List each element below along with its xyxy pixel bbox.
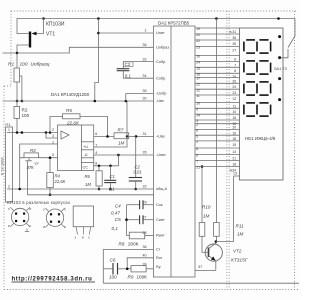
svg-text:R3: R3 — [30, 148, 36, 153]
pinout circle 1 — [11, 208, 28, 225]
display digit 2 — [244, 61, 271, 74]
wire pin4 to DA2 pin26 — [94, 154, 154, 156]
wire DA2 pin 20 to display pin 36 — [195, 33, 240, 35]
resistor R11 — [214, 223, 220, 237]
svg-text:Rу: Rу — [156, 265, 161, 269]
wire DA2 pin 15 to display pin 8 — [195, 66, 240, 68]
resistor R10 — [199, 223, 205, 237]
wire bottom rail — [103, 282, 299, 284]
display decimal point 1 — [278, 35, 281, 38]
svg-text:32: 32 — [143, 185, 147, 189]
junction pin3 branch / input row — [45, 131, 48, 134]
svg-text:5: 5 — [196, 108, 198, 112]
wire C5 row pin27 — [127, 219, 140, 221]
junction R7 / +U branch — [126, 135, 129, 138]
svg-text:34: 34 — [143, 74, 147, 78]
svg-text:+U: +U — [83, 145, 88, 149]
VT2 base lead — [202, 251, 209, 253]
svg-text:Rог: Rог — [156, 256, 163, 260]
op-amp cell line 1 — [81, 141, 93, 143]
svg-text:37: 37 — [198, 265, 202, 269]
svg-text:Собр.: Собр. — [156, 60, 166, 64]
wire R11 top — [215, 19, 217, 223]
svg-text:5: 5 — [196, 134, 198, 138]
pinout circle 2 — [46, 209, 63, 226]
connector pin 2 — [7, 188, 13, 190]
wire R3 to pin5 — [38, 157, 57, 159]
op-amp triangle — [61, 131, 69, 139]
wire R10 top — [201, 167, 203, 223]
connector pin 1 — [7, 132, 13, 134]
junction pin26 row / pin8 branch — [117, 154, 120, 157]
case border bottom — [4, 289, 299, 291]
junction C1 / pin8 row — [109, 165, 112, 168]
svg-text:7: 7 — [196, 160, 198, 164]
display decimal point 3 — [278, 77, 281, 80]
junction R10 / BP row — [201, 165, 204, 168]
wire DA2 pin 10 to display pin 11 — [195, 102, 240, 104]
svg-text:13: 13 — [233, 172, 237, 176]
junction supply drop / rail — [94, 100, 97, 103]
resistor R8 — [129, 232, 144, 239]
display digit 1 — [244, 40, 271, 53]
wire VT2 emitter down — [215, 261, 217, 271]
svg-text:6: 6 — [95, 132, 97, 136]
wire R5 right — [80, 116, 108, 136]
svg-text:6: 6 — [196, 129, 198, 133]
svg-text:R5: R5 — [66, 108, 72, 113]
display decimal point 2 — [278, 56, 281, 59]
wire DA2 pin 10 to display pin 6 — [195, 55, 240, 57]
junction pin1 branch — [97, 32, 100, 35]
svg-text:23: 23 — [196, 46, 200, 50]
svg-text:Uобразц: Uобразц — [31, 61, 50, 67]
svg-text:Сок: Сок — [156, 203, 163, 207]
wire DA2 pin 22 to display pin 35 — [195, 39, 240, 41]
op-amp cell line 3 — [81, 157, 93, 159]
junction R2 / input row — [16, 131, 19, 134]
svg-text:R11: R11 — [236, 224, 245, 229]
capacitor C1 top lead — [110, 166, 112, 181]
display digit 3 — [244, 82, 271, 95]
wire DA2 pin 24 to display pin 7 — [195, 61, 240, 63]
wire R3 left lead to rail — [19, 158, 21, 189]
svg-text:4: 4 — [95, 151, 97, 155]
svg-text:11: 11 — [233, 104, 237, 108]
VT1 gate arrow — [32, 32, 37, 36]
wire SA1 top — [294, 19, 296, 37]
svg-text:47К: 47К — [27, 165, 35, 170]
capacitor C6 plates — [112, 263, 114, 275]
R3 wiper — [28, 158, 30, 161]
svg-text:100: 100 — [20, 61, 28, 67]
wire pin7 +U — [94, 101, 127, 147]
svg-text:VT2: VT2 — [233, 248, 242, 253]
junction tap wire / input row — [21, 131, 24, 134]
wire R2 bottom — [16, 118, 18, 132]
svg-text:SA1 ТЗ: SA1 ТЗ — [274, 67, 288, 71]
case border top — [11, 10, 296, 12]
wire pin38 row — [103, 250, 153, 269]
svg-text:-U: -U — [84, 153, 88, 157]
wire DA2 pin 6 to display pin 19 — [195, 128, 240, 130]
svg-text:R2: R2 — [22, 108, 28, 113]
wire DA2 pin 23 to display pin 27 — [195, 46, 240, 48]
junction R3 lead / common rail — [18, 188, 21, 191]
wire pin3 branch — [46, 133, 58, 139]
wire DA2 pin33 — [123, 62, 153, 69]
junction R5 / pin6 — [106, 135, 109, 138]
svg-text:-Uобр: -Uобр — [156, 92, 166, 96]
junction R4 / second rail — [49, 194, 52, 197]
wire pin35 drop — [125, 94, 127, 102]
svg-text:20: 20 — [196, 33, 200, 37]
svg-text:+Uвх: +Uвх — [156, 135, 165, 139]
resistor R6 — [96, 171, 102, 186]
junction R5 feedback / input row — [49, 131, 52, 134]
wire DA2 pin 12 to display pin 23 — [195, 88, 240, 90]
svg-text:7: 7 — [234, 63, 236, 67]
capacitor C1 plates — [104, 179, 116, 181]
svg-text:100: 100 — [22, 113, 30, 118]
wire bottom rail left riser — [102, 269, 104, 283]
svg-text:общ.А: общ.А — [156, 187, 167, 191]
VT2 base bar — [208, 248, 210, 258]
capacitor C2 plates — [129, 177, 142, 179]
wire pin6 output — [94, 135, 114, 137]
svg-text:21: 21 — [196, 166, 200, 170]
pinout package 3 — [73, 206, 93, 227]
svg-text:10: 10 — [232, 110, 236, 114]
svg-text:38: 38 — [143, 245, 147, 249]
svg-text:8: 8 — [196, 147, 198, 151]
capacitor C5 plates — [139, 215, 141, 224]
svg-text:10: 10 — [196, 55, 200, 59]
svg-text:8: 8 — [234, 69, 236, 73]
svg-text:КП103И: КП103И — [46, 22, 65, 28]
junction top rail / R11 branch — [215, 17, 218, 20]
wire SA1 bottom — [281, 49, 288, 58]
svg-text:36: 36 — [232, 36, 236, 40]
junction R6 / pin8 row — [98, 165, 101, 168]
svg-text:1М: 1М — [203, 214, 210, 219]
wire DA2 pin 21 to display pin 4|34 — [195, 166, 240, 168]
wire DA2 pin 7 to display pin 18 — [195, 160, 240, 162]
wire DA2 pin 16 to display pin 25 — [195, 72, 240, 74]
svg-text:5: 5 — [52, 153, 54, 157]
svg-text:18: 18 — [232, 162, 236, 166]
wire input row to DA1 pin2 — [13, 132, 58, 134]
junction top rail / SA1 branch — [277, 17, 280, 20]
wire R10 bottom to base — [201, 236, 203, 252]
wire DA2 pin1 supply — [95, 19, 99, 102]
wire VT1 source — [17, 19, 44, 34]
resistor R4 — [47, 173, 54, 188]
junction tap / -Uin rail — [21, 100, 24, 103]
svg-text:15: 15 — [196, 67, 200, 71]
wire R7 to DA2 pin31 — [129, 135, 154, 137]
wire R8 left — [127, 235, 130, 237]
capacitor C2 top lead — [135, 136, 137, 177]
wire C6 left lead — [103, 268, 113, 270]
svg-text:24: 24 — [196, 61, 200, 65]
wire DA2 pin1 row — [98, 32, 153, 34]
svg-text:14: 14 — [232, 150, 236, 154]
wire DA2 pin 3 to display pin 15 — [195, 119, 240, 121]
svg-text:C2: C2 — [135, 164, 141, 169]
resistor R7 — [114, 133, 129, 139]
resistor R1 — [14, 68, 20, 82]
svg-text:и: и — [8, 224, 10, 228]
svg-text:-Uпит: -Uпит — [156, 153, 166, 157]
svg-text:8: 8 — [95, 162, 97, 166]
svg-text:0,47: 0,47 — [111, 211, 120, 216]
wire Uobraz rail to DA2 pin36 — [3, 47, 154, 53]
svg-text:и: и — [82, 236, 84, 240]
svg-text:21: 21 — [232, 156, 236, 160]
wire R4 bottom — [49, 188, 51, 195]
svg-text:26: 26 — [232, 79, 236, 83]
svg-text:26: 26 — [143, 151, 147, 155]
case border right — [294, 11, 296, 290]
wire -Uin rail to DA2 pin30 — [3, 100, 154, 102]
svg-text:КП103 в различных корпусах: КП103 в различных корпусах — [7, 200, 70, 205]
op-amp DA1 body — [58, 125, 94, 171]
svg-text:22,6К: 22,6К — [54, 179, 66, 184]
wire V+ top rail — [44, 18, 296, 20]
svg-text:1: 1 — [8, 128, 10, 132]
svg-text:36: 36 — [143, 43, 147, 47]
svg-text:R8: R8 — [119, 242, 125, 247]
pinout circle 1 case mark — [26, 229, 28, 232]
svg-text:0,01: 0,01 — [134, 170, 142, 175]
op-amp DA1 divider — [80, 125, 82, 171]
IC DA2 body — [154, 26, 196, 277]
wire DA2 pin 2 to display pin 20 — [195, 123, 240, 125]
svg-text:33: 33 — [143, 57, 147, 61]
svg-text:R10: R10 — [202, 205, 211, 210]
svg-text:C5: C5 — [115, 217, 121, 222]
svg-text:17: 17 — [196, 77, 200, 81]
svg-text:“0”: “0” — [34, 161, 40, 166]
wire R3 wiper down — [27, 161, 29, 195]
VT2 collector — [209, 243, 216, 249]
svg-text:3: 3 — [52, 134, 54, 138]
wire DA2 pin 2 to display pin 15 — [195, 140, 240, 142]
svg-text:24: 24 — [232, 85, 236, 89]
svg-text:Собр.: Собр. — [156, 76, 166, 80]
wire second rail — [28, 194, 154, 196]
svg-text:К ТУ-100Л: К ТУ-100Л — [0, 157, 4, 175]
svg-text:Сг: Сг — [156, 248, 161, 252]
junction R7 / C2 branch — [135, 135, 138, 138]
wire R4 top — [49, 158, 51, 173]
R1 tap — [20, 76, 22, 101]
op-amp cell line 4 — [81, 162, 93, 164]
case border left jog — [4, 85, 11, 87]
shield dashed line 2 — [228, 11, 230, 290]
wire pin40 row — [127, 258, 153, 269]
svg-text:11: 11 — [196, 94, 200, 98]
wire R8 to pin28 — [145, 235, 154, 237]
VT2 emitter — [209, 256, 216, 261]
wire DA2 pin 5 to display pin 10 — [195, 107, 240, 109]
junction top rail / VT1 gate — [42, 17, 45, 20]
svg-text:2: 2 — [196, 123, 198, 127]
junction collector node — [215, 240, 218, 243]
transistor VT1 channel — [29, 32, 31, 48]
wire C6 right lead — [118, 268, 132, 270]
svg-text:35: 35 — [232, 42, 236, 46]
wire C4 row pin29 — [127, 204, 140, 206]
wire DA2 pin 5 to display pin 18 — [195, 134, 240, 136]
wire pin1 to R3 — [20, 144, 58, 158]
wire DA2 pin 14 to display pin 16 — [195, 113, 240, 115]
wire VT1 gate — [33, 19, 44, 34]
svg-text:и: и — [30, 207, 32, 211]
resistor R2 — [14, 106, 20, 118]
svg-text:100: 100 — [109, 274, 117, 279]
capacitor C3 plates — [117, 68, 130, 70]
url underline — [12, 281, 96, 283]
wire R9 to pin39 — [146, 268, 153, 270]
svg-text:R1: R1 — [8, 61, 14, 67]
svg-text:П1: П1 — [5, 122, 11, 127]
case border left lower — [3, 86, 5, 290]
svg-text:в.31: в.31 — [230, 30, 237, 34]
wire DA2 pin 8 to display pin 14 — [195, 147, 240, 149]
svg-text:Синт: Синт — [156, 218, 165, 222]
svg-text:6: 6 — [196, 154, 198, 158]
trim resistor R3 — [24, 153, 38, 158]
svg-text:12: 12 — [196, 88, 200, 92]
svg-text:40: 40 — [143, 254, 147, 258]
svg-text:HG1 ИЖЦ5-4/8: HG1 ИЖЦ5-4/8 — [245, 136, 276, 141]
svg-text:30: 30 — [143, 97, 147, 101]
svg-text:15: 15 — [232, 143, 236, 147]
capacitor C1 bottom lead — [110, 183, 112, 189]
resistor R5 — [63, 114, 81, 119]
wire VT1 drain — [17, 45, 29, 53]
svg-text:C3: C3 — [125, 62, 131, 67]
junction C6 R9 osc — [126, 268, 129, 271]
wire analog vertical — [126, 205, 128, 236]
VT2 emitter arrow — [211, 256, 216, 260]
svg-text:1: 1 — [145, 29, 147, 33]
svg-text:1М: 1М — [118, 140, 125, 145]
svg-text:1М: 1М — [85, 182, 91, 187]
svg-text:16: 16 — [232, 116, 236, 120]
svg-text:Uпит: Uпит — [156, 31, 165, 35]
svg-text:R9: R9 — [128, 275, 134, 280]
svg-text:-Uвх: -Uвх — [156, 99, 164, 103]
junction +U branch / rail — [125, 100, 128, 103]
svg-text:КТ315Г: КТ315Г — [231, 258, 248, 264]
svg-text:19: 19 — [232, 131, 236, 135]
svg-text:C1: C1 — [110, 174, 115, 179]
svg-text:100К: 100К — [137, 275, 148, 280]
svg-text:0,1: 0,1 — [125, 73, 132, 78]
connector P1 body — [6, 127, 13, 202]
svg-text:C4: C4 — [115, 203, 121, 208]
case border left upper — [10, 11, 12, 86]
wire DA2 pin 11 to display pin 12 — [195, 94, 240, 96]
wire DA2 pin 6 to display pin 21 — [195, 154, 240, 156]
transistor VT2 circle — [205, 244, 222, 261]
svg-text:C6: C6 — [110, 258, 116, 263]
display digit 4 — [244, 103, 271, 116]
svg-text:14: 14 — [196, 113, 200, 117]
svg-text:0,1: 0,1 — [112, 226, 119, 231]
wire DA2 pin 22 to display pin 24 — [195, 82, 240, 84]
svg-text:R6: R6 — [85, 174, 91, 179]
svg-text:2: 2 — [52, 128, 54, 132]
resistor R9 — [131, 266, 146, 272]
wire pin8 CC — [94, 155, 119, 166]
junction top rail / DA2 pin1 branch — [97, 17, 100, 20]
junction R1 / -Uin rail — [16, 100, 19, 103]
wire R6 bottom — [98, 186, 100, 189]
capacitor C2 bottom lead — [135, 181, 137, 189]
wire R2 top — [16, 101, 18, 106]
wire R11 bottom — [215, 236, 217, 241]
svg-text:CC: CC — [83, 165, 89, 169]
svg-text:2: 2 — [196, 140, 198, 144]
wire collector to display pin13 — [216, 176, 234, 242]
IC DA2 divider — [170, 26, 172, 277]
junction VT1 drain / rail — [16, 52, 19, 55]
wire display pin 13 stub — [234, 175, 240, 177]
svg-text:23: 23 — [232, 91, 236, 95]
svg-text:2: 2 — [8, 184, 10, 188]
wire C3 to pin34 — [123, 71, 153, 79]
svg-text:22,6К: 22,6К — [66, 121, 79, 126]
svg-text:27: 27 — [232, 48, 236, 52]
svg-text:12: 12 — [232, 97, 236, 101]
capacitor C4 plates — [139, 200, 141, 209]
svg-text:DA2 КР572ПВ5: DA2 КР572ПВ5 — [158, 21, 190, 26]
wire DA2 pin 17 to display pin 26 — [195, 77, 240, 79]
shield dashed line 1 — [226, 11, 228, 290]
op-amp cell line 2 — [81, 149, 93, 151]
wire R6 top — [98, 166, 100, 171]
switch SA1 lever — [288, 36, 295, 48]
svg-text:35: 35 — [143, 89, 147, 93]
svg-text:DA1 КР140УД1208: DA1 КР140УД1208 — [51, 92, 89, 97]
wire DA2 pin35 — [126, 93, 154, 95]
svg-text:22: 22 — [196, 39, 200, 43]
svg-text:31: 31 — [143, 132, 147, 136]
svg-text:и: и — [43, 225, 45, 229]
svg-text:R4: R4 — [55, 174, 61, 179]
wire DA2 pin37 — [195, 269, 216, 271]
wire R5 left — [50, 116, 63, 132]
display HG1 body — [240, 28, 284, 180]
wire DA2 pin 19 to display pin в.31 — [195, 27, 240, 29]
svg-text:VT1: VT1 — [46, 32, 55, 38]
svg-text:22: 22 — [196, 83, 200, 87]
svg-text:19: 19 — [196, 27, 200, 31]
svg-text:6: 6 — [234, 57, 236, 61]
svg-text:Uобраз: Uобраз — [156, 46, 169, 50]
svg-text:Rинт: Rинт — [156, 234, 165, 238]
wire R1 top — [16, 53, 18, 68]
display decimal point 4 — [278, 98, 281, 101]
svg-text:10: 10 — [196, 102, 200, 106]
svg-text:R7: R7 — [118, 128, 124, 133]
wire common rail to DA2 pin32 — [13, 188, 154, 190]
wire R1 bottom — [16, 82, 18, 101]
